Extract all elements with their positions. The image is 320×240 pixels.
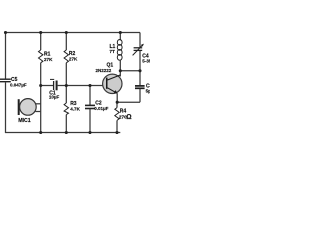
wire emitter column (116, 94, 118, 103)
inductor L1 (109, 33, 122, 71)
node R1 top (39, 31, 42, 34)
resistor R1 (39, 33, 54, 86)
capacitor C4 (trimmer) (133, 33, 152, 86)
svg-text:MIC1: MIC1 (18, 118, 31, 124)
node mic bottom rail (39, 131, 42, 134)
capacitor C2 (85, 86, 109, 133)
capacitor C1 (49, 79, 60, 99)
svg-text:Ω: Ω (126, 114, 131, 121)
wire collector drop into Q1 (119, 71, 121, 77)
node C1/R1/mic junction (39, 84, 42, 87)
capacitor C3 (135, 84, 153, 103)
wire emitter to C3 (117, 101, 140, 103)
node R2/R3 junction (65, 84, 68, 87)
node collector junction (119, 69, 122, 72)
wire left column lower (5, 82, 7, 133)
node emitter junction (116, 101, 119, 104)
svg-text:27K: 27K (69, 57, 78, 62)
svg-text:5p: 5p (146, 88, 150, 93)
wire collector node horizontal (120, 70, 140, 72)
node C4/C3 junction (138, 69, 141, 72)
node top-left corner (4, 31, 7, 34)
node R3 bottom rail (65, 131, 68, 134)
svg-text:L1: L1 (110, 44, 116, 50)
node C2 junction (88, 84, 91, 87)
svg-text:0.01µF: 0.01µF (94, 106, 108, 111)
svg-text:10µF: 10µF (49, 95, 60, 100)
wire base net (58, 85, 107, 87)
wire mid node (C1 left lead) (41, 85, 54, 87)
capacitor C5 (0, 77, 27, 88)
resistor R4 (115, 102, 132, 132)
wire left column upper (5, 33, 7, 79)
node C2 bottom rail (88, 131, 91, 134)
wire top supply rail (6, 32, 141, 34)
svg-text:4.7K: 4.7K (70, 106, 80, 111)
node R2 top (65, 31, 68, 34)
microphone MIC1 (18, 99, 41, 125)
svg-text:2N2222: 2N2222 (96, 68, 112, 73)
svg-text:7T: 7T (109, 49, 115, 55)
node R4 bottom rail (115, 131, 118, 134)
svg-text:27K: 27K (44, 57, 53, 62)
svg-text:5-35: 5-35 (142, 59, 150, 64)
node L1 top (119, 31, 122, 34)
resistor R3 (64, 86, 80, 133)
transistor Q1 (96, 62, 123, 94)
resistor R2 (64, 33, 78, 86)
wire bottom ground rail (5, 132, 120, 134)
microphone branch wire (40, 86, 42, 133)
svg-text:0.047µF: 0.047µF (10, 82, 27, 87)
